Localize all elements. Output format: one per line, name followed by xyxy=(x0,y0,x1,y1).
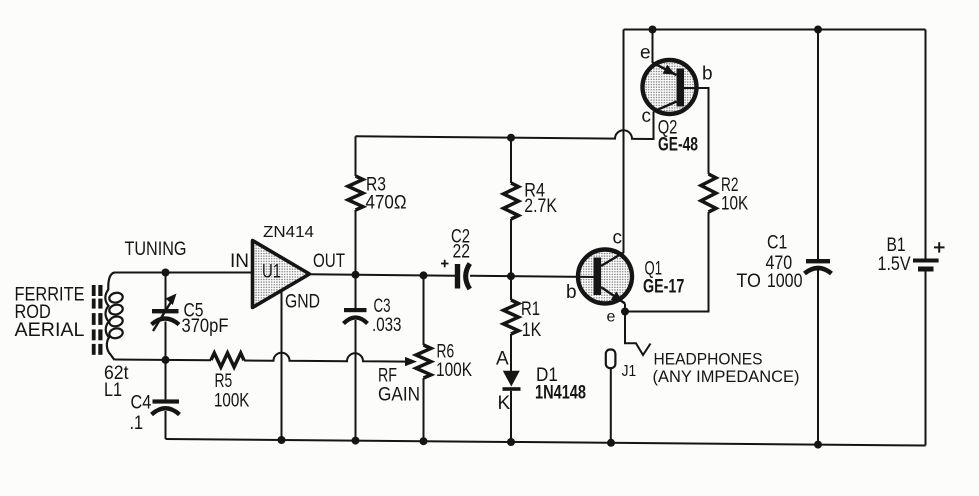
transistor Q1 body xyxy=(578,250,632,304)
svg-text:470Ω: 470Ω xyxy=(366,193,407,214)
node: J1 on bottom rail xyxy=(607,439,615,447)
label C4 .1 xyxy=(130,393,152,435)
svg-text:.033: .033 xyxy=(372,315,401,336)
capacitor C1 xyxy=(805,259,832,274)
svg-text:B1: B1 xyxy=(887,235,906,256)
label R4 2.7K xyxy=(524,181,557,218)
svg-text:C3: C3 xyxy=(374,296,391,317)
capacitor C2 xyxy=(441,260,470,289)
wire: OUT rail left segment xyxy=(310,274,456,275)
label RF GAIN xyxy=(378,366,420,406)
svg-text:b: b xyxy=(566,282,577,303)
svg-text:.1: .1 xyxy=(130,413,144,434)
label C5 370pF xyxy=(182,301,229,338)
label C3 .033 xyxy=(372,296,401,336)
svg-text:C1: C1 xyxy=(767,233,787,254)
node: C3 on bottom rail xyxy=(352,437,360,445)
node: R6 top on OUT rail xyxy=(420,271,428,279)
label HEADPHONES (ANY IMPEDANCE) xyxy=(653,350,800,387)
svg-text:A: A xyxy=(496,349,509,370)
svg-text:10K: 10K xyxy=(721,194,748,215)
diode D1 xyxy=(503,371,521,443)
node: R6 on bottom rail xyxy=(420,437,428,445)
node: GND lead on bottom rail xyxy=(278,436,286,444)
label D1 1N4148 xyxy=(535,365,586,404)
node: C1 on bottom rail xyxy=(814,441,822,449)
label R1 1K xyxy=(521,299,542,341)
svg-text:C4: C4 xyxy=(131,393,152,414)
wire: Q2 emitter lead (top rail down to Q2) xyxy=(652,30,654,64)
svg-text:100K: 100K xyxy=(436,360,472,381)
resistor R1 xyxy=(504,276,519,370)
svg-text:TO: TO xyxy=(736,271,761,292)
svg-text:R5: R5 xyxy=(215,371,233,392)
svg-text:GE-17: GE-17 xyxy=(643,277,684,298)
transistor Q2 body xyxy=(643,60,697,114)
resistor R3 xyxy=(348,136,363,274)
wire: coil bottom to R5 xyxy=(115,359,212,362)
node: tuning junction xyxy=(162,269,170,277)
svg-text:GND: GND xyxy=(285,292,320,313)
svg-text:1000: 1000 xyxy=(767,271,803,292)
node: Q1 emitter junction xyxy=(621,308,629,316)
svg-text:HEADPHONES: HEADPHONES xyxy=(654,350,763,369)
node: C1 on top rail xyxy=(814,26,822,34)
svg-text:J1: J1 xyxy=(622,363,637,380)
label C2 22 xyxy=(451,227,470,263)
wire: R2 bottom to Q1 emitter node xyxy=(625,212,709,312)
svg-text:L1: L1 xyxy=(104,380,122,401)
node: coil bottom junction xyxy=(162,356,170,364)
svg-text:R1: R1 xyxy=(521,299,540,320)
svg-text:TUNING: TUNING xyxy=(125,239,187,260)
battery B1 xyxy=(913,242,945,271)
svg-text:1N4148: 1N4148 xyxy=(535,383,586,404)
wire: R3/R4 rail to Q2 collector with hop over Q1 collector lead xyxy=(356,112,654,140)
svg-text:c: c xyxy=(642,106,652,127)
svg-text:(ANY IMPEDANCE): (ANY IMPEDANCE) xyxy=(653,367,800,386)
label B1 1.5V xyxy=(878,235,911,275)
headphone plug symbol xyxy=(625,312,651,356)
wire: C1 leads xyxy=(817,30,819,445)
svg-text:OUT: OUT xyxy=(313,251,345,272)
svg-text:RF: RF xyxy=(378,366,397,387)
node: R4/R1/C2 on OUT rail xyxy=(507,272,515,280)
svg-text:c: c xyxy=(613,228,623,249)
capacitor C4 xyxy=(152,360,180,439)
label Q1 GE-17 xyxy=(643,259,684,298)
node: Q2 emitter on top rail xyxy=(649,26,657,34)
potentiometer R6 xyxy=(416,275,431,441)
svg-text:22: 22 xyxy=(453,242,471,263)
wire: Q1 collector lead (top rail down to Q1) xyxy=(623,30,625,254)
wire: top supply rail xyxy=(624,29,926,31)
svg-text:K: K xyxy=(498,393,511,414)
svg-text:e: e xyxy=(607,309,616,326)
label R6 100K xyxy=(436,342,472,382)
op-amp U1 body (ZN414 triangle) xyxy=(253,241,310,308)
label Q2 GE-48 xyxy=(658,118,698,156)
svg-text:1K: 1K xyxy=(522,320,542,341)
node: R4 top on collector rail xyxy=(507,134,515,142)
resistor R4 xyxy=(504,138,519,277)
svg-text:ZN414: ZN414 xyxy=(263,224,314,241)
inductor L1 coil xyxy=(105,273,123,360)
svg-text:370pF: 370pF xyxy=(182,316,229,337)
ferrite rod (dashed bars) xyxy=(92,285,103,355)
label R2 10K xyxy=(721,175,748,215)
svg-text:100K: 100K xyxy=(214,391,250,412)
node: D1 on bottom rail xyxy=(507,438,515,446)
wire: OUT rail right segment to Q1 base xyxy=(470,276,596,277)
wire: U1 GND lead xyxy=(281,291,283,441)
transistor Q1 internals (base bar, collector, emitter with arrow) xyxy=(594,253,626,312)
svg-text:AERIAL: AERIAL xyxy=(15,320,85,341)
label 62t L1 xyxy=(104,363,129,401)
svg-text:GAIN: GAIN xyxy=(378,385,420,406)
resistor R2 xyxy=(701,174,716,212)
wiper arrowhead into R6 xyxy=(405,357,417,366)
jack J1 xyxy=(606,350,616,444)
svg-text:GE-48: GE-48 xyxy=(658,135,698,156)
capacitor C3 xyxy=(344,275,368,441)
wire: bottom ground rail xyxy=(166,439,926,446)
label R5 100K xyxy=(214,371,250,412)
label R3 470ohm xyxy=(366,175,407,214)
svg-text:b: b xyxy=(702,64,713,85)
label C1 470 TO 1000 xyxy=(736,233,802,293)
variable capacitor C5 xyxy=(152,273,180,360)
wire: Q2 base lead down to R2 xyxy=(684,88,709,174)
svg-text:e: e xyxy=(640,43,651,64)
wire: tuning node to U1 IN xyxy=(115,272,253,274)
svg-text:U1: U1 xyxy=(262,262,281,283)
transistor Q2 internals (base bar, emitter arrow, collector) xyxy=(653,63,685,112)
wire: R5 to R6 wiper with hops over GND and C3 leads xyxy=(244,353,407,362)
label FERRITE ROD AERIAL xyxy=(15,285,85,342)
node: R3/C3 on OUT rail xyxy=(352,271,360,279)
svg-text:2.7K: 2.7K xyxy=(524,196,557,217)
svg-text:1.5V: 1.5V xyxy=(878,254,911,275)
svg-text:IN: IN xyxy=(230,251,249,272)
resistor R5 xyxy=(211,353,244,367)
wire: right branch to battery B1 xyxy=(925,30,927,446)
